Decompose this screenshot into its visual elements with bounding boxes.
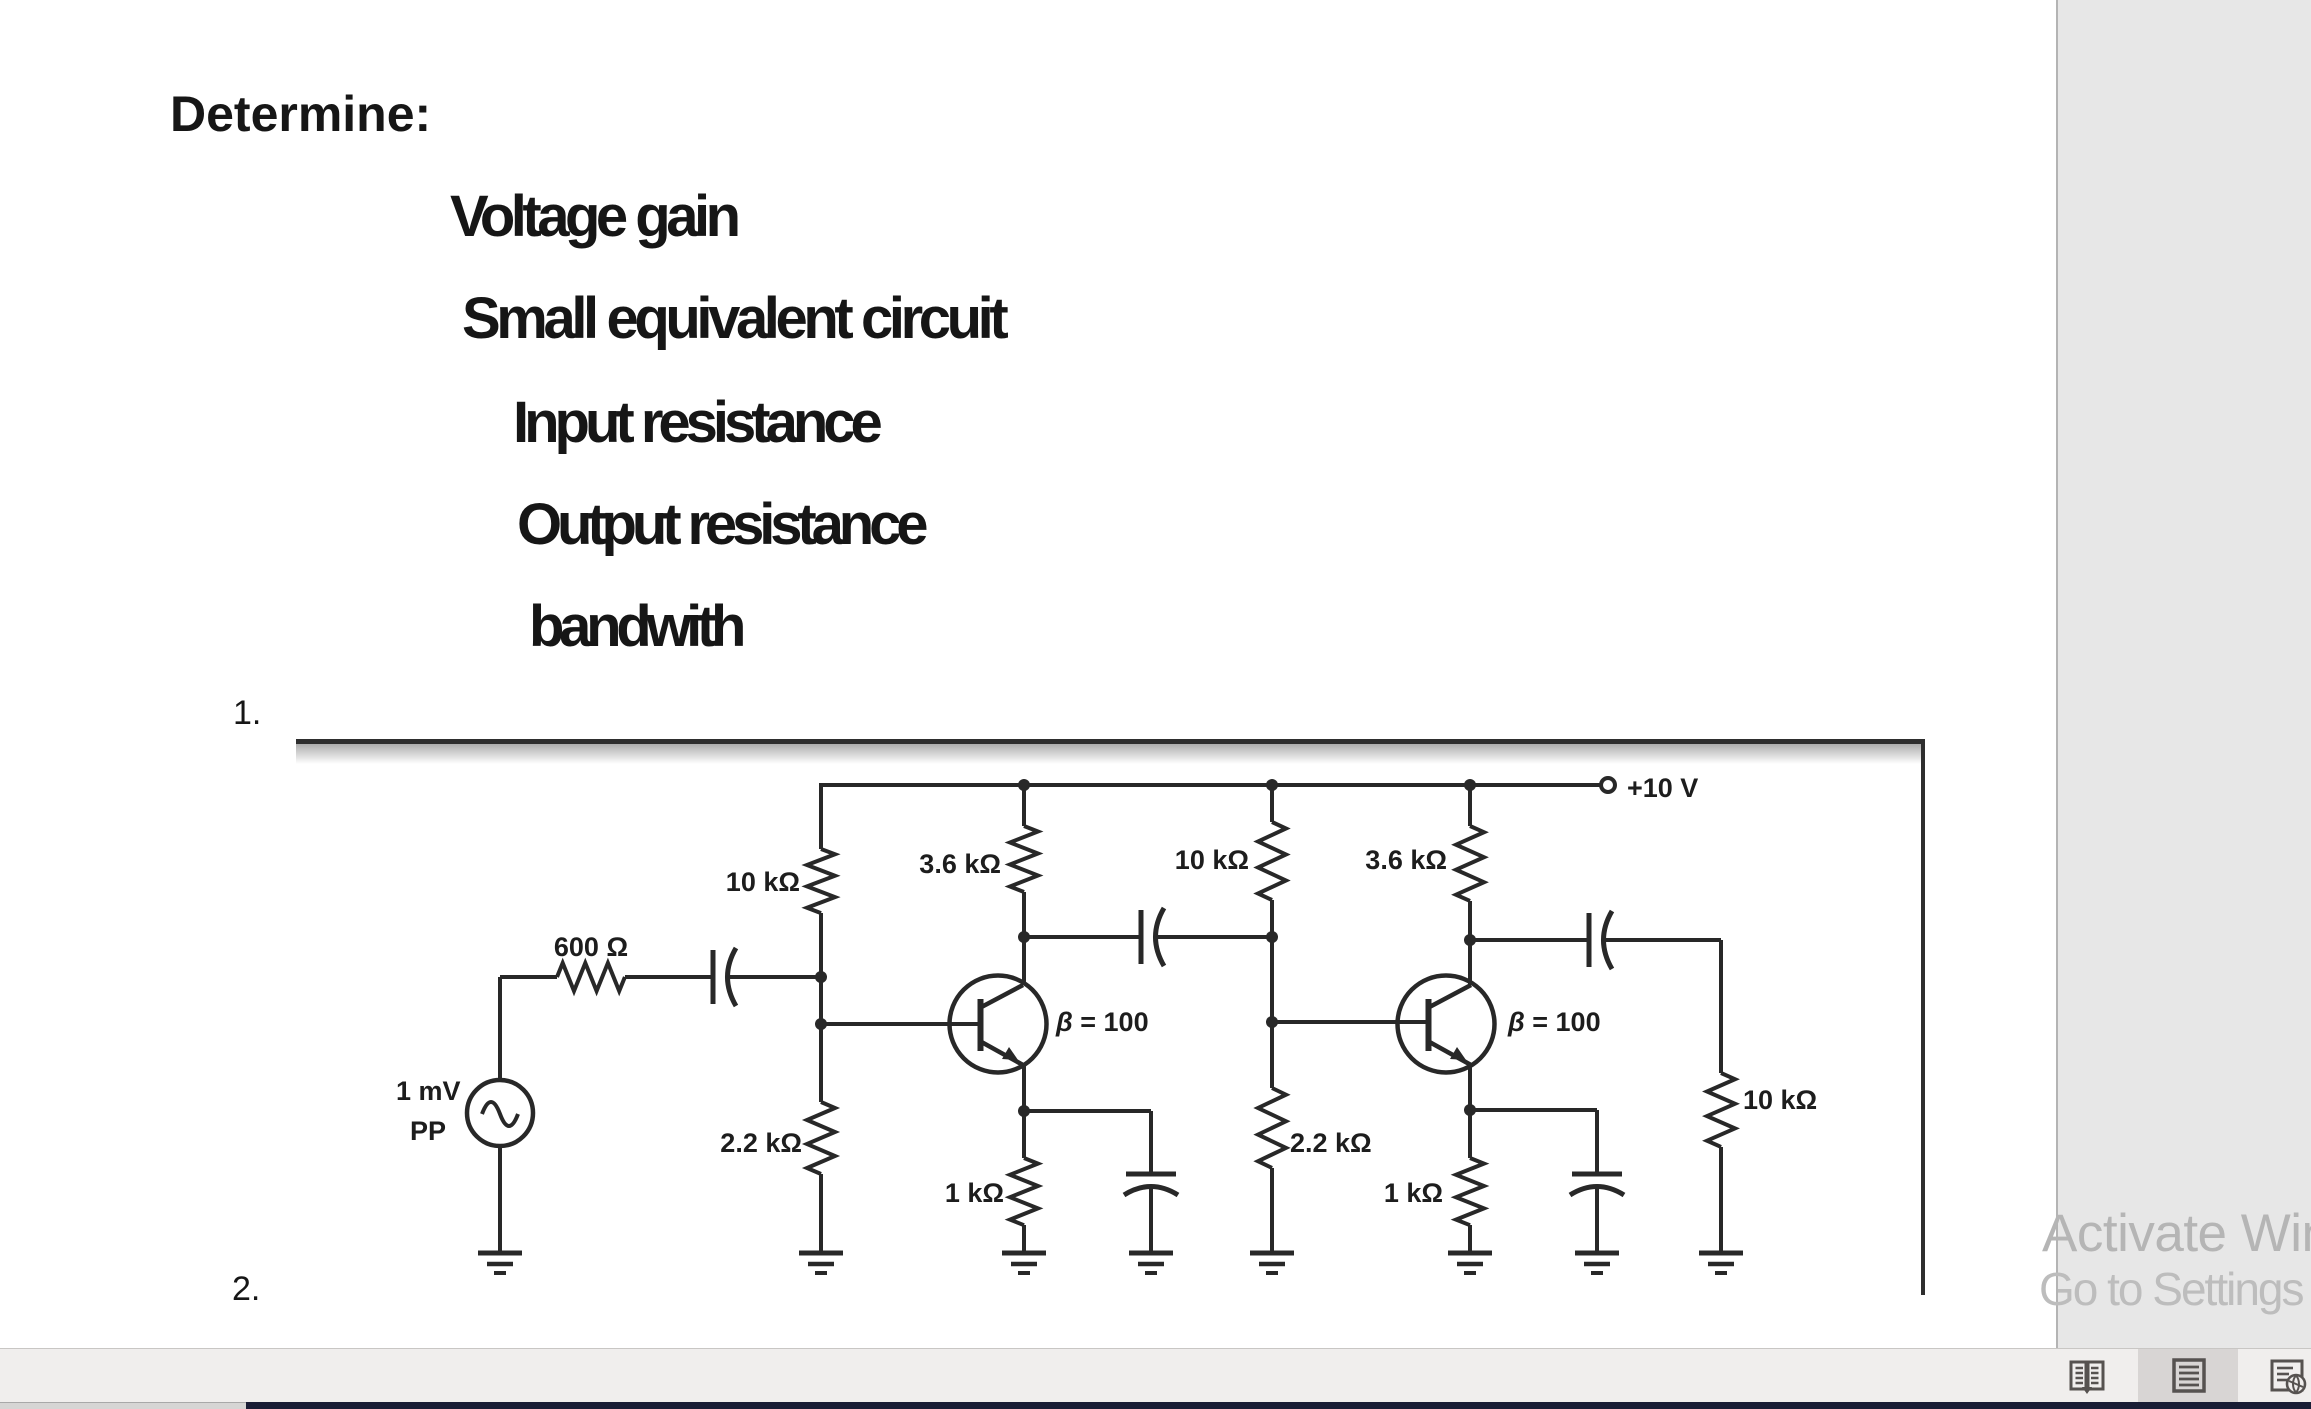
svg-text:2.2 kΩ: 2.2 kΩ bbox=[1290, 1128, 1372, 1158]
svg-text:PP: PP bbox=[410, 1116, 446, 1146]
svg-text:3.6 kΩ: 3.6 kΩ bbox=[1365, 845, 1447, 875]
svg-text:β = 100: β = 100 bbox=[1055, 1007, 1149, 1037]
svg-text:10 kΩ: 10 kΩ bbox=[1743, 1085, 1817, 1115]
svg-text:2.2 kΩ: 2.2 kΩ bbox=[720, 1128, 802, 1158]
svg-text:1 kΩ: 1 kΩ bbox=[1384, 1178, 1443, 1208]
svg-text:+10 V: +10 V bbox=[1627, 773, 1698, 803]
svg-text:10 kΩ: 10 kΩ bbox=[1175, 845, 1249, 875]
svg-text:600 Ω: 600 Ω bbox=[554, 932, 628, 962]
svg-text:β = 100: β = 100 bbox=[1507, 1007, 1601, 1037]
svg-text:1 kΩ: 1 kΩ bbox=[945, 1178, 1004, 1208]
svg-text:1 mV: 1 mV bbox=[396, 1076, 461, 1106]
svg-text:3.6 kΩ: 3.6 kΩ bbox=[919, 849, 1001, 879]
svg-text:10 kΩ: 10 kΩ bbox=[726, 867, 800, 897]
